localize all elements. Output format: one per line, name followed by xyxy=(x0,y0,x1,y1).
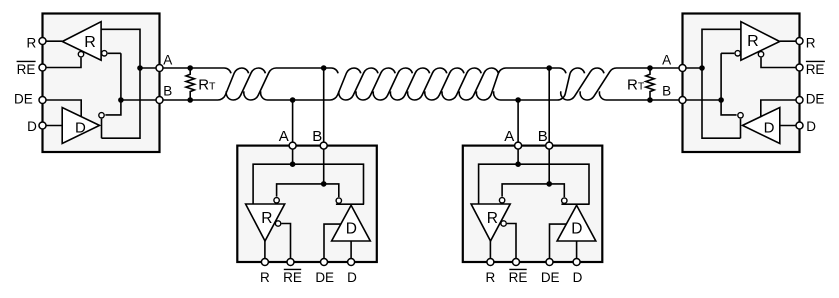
svg-text:D: D xyxy=(571,220,582,237)
svg-text:A: A xyxy=(279,128,289,145)
svg-text:RE: RE xyxy=(283,270,302,285)
svg-text:DE: DE xyxy=(541,270,560,285)
svg-text:DE: DE xyxy=(14,92,33,107)
svg-text:R: R xyxy=(84,34,96,51)
svg-text:D: D xyxy=(764,120,775,137)
svg-text:B: B xyxy=(312,128,322,145)
svg-text:R: R xyxy=(26,35,36,50)
svg-text:R: R xyxy=(747,33,759,50)
svg-text:DE: DE xyxy=(315,270,334,285)
svg-text:D: D xyxy=(806,119,816,134)
svg-text:B: B xyxy=(538,128,548,145)
svg-text:D: D xyxy=(347,270,357,285)
svg-text:D: D xyxy=(573,270,583,285)
svg-text:R: R xyxy=(806,35,816,50)
svg-text:B: B xyxy=(163,84,172,99)
svg-text:D: D xyxy=(346,220,357,237)
svg-text:D: D xyxy=(27,119,37,134)
svg-text:RE: RE xyxy=(806,62,825,77)
svg-text:A: A xyxy=(504,128,514,145)
svg-text:R: R xyxy=(261,210,272,227)
svg-text:A: A xyxy=(662,52,671,67)
svg-text:R: R xyxy=(486,270,496,285)
svg-text:RE: RE xyxy=(509,270,528,285)
svg-text:RE: RE xyxy=(17,62,36,77)
svg-text:R: R xyxy=(260,270,270,285)
svg-text:R: R xyxy=(487,210,498,227)
svg-text:D: D xyxy=(75,120,86,137)
svg-text:DE: DE xyxy=(806,92,825,107)
svg-text:A: A xyxy=(163,52,172,67)
svg-text:B: B xyxy=(662,84,671,99)
